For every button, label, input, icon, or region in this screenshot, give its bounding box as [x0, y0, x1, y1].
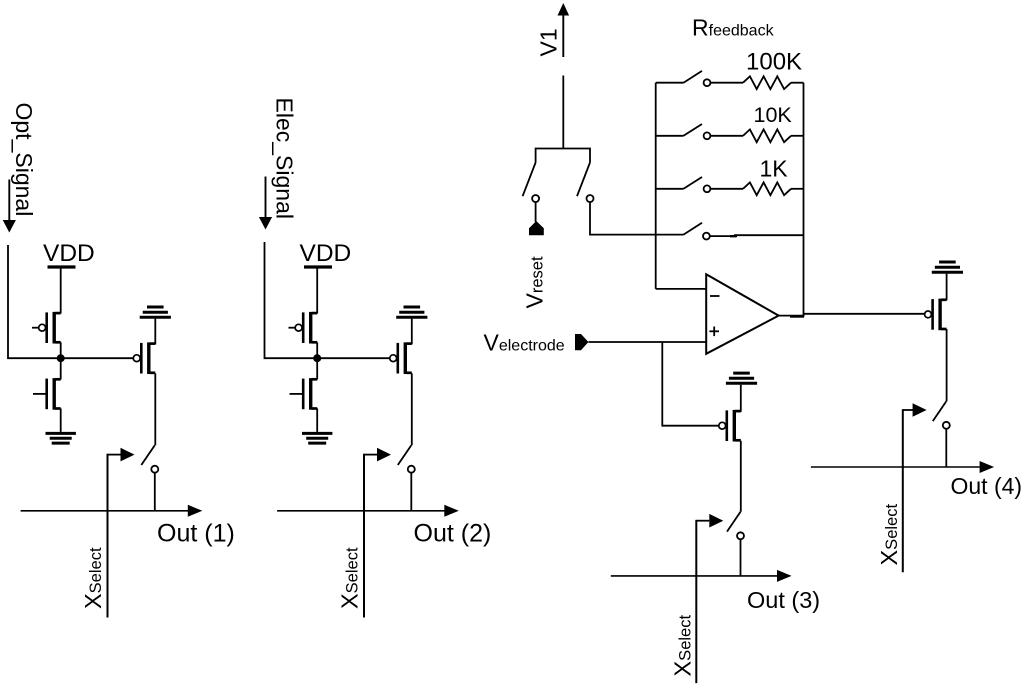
wire Velectrode to non-inverting input	[588, 341, 706, 343]
wire NMOS to ground 1	[60, 408, 62, 432]
VDD label 1	[43, 240, 95, 267]
row select switch 1	[141, 445, 158, 473]
label 10K	[754, 103, 793, 127]
svg-text:Velectrode: Velectrode	[484, 329, 565, 355]
wire contact to Vreset tag	[535, 202, 537, 222]
reset switch right blade	[577, 163, 590, 197]
wire switch4 to out line	[945, 429, 947, 467]
svg-text:Vreset: Vreset	[522, 256, 548, 308]
svg-text:XSelect: XSelect	[337, 547, 363, 609]
wire op-amp output to bus	[779, 315, 805, 317]
svg-text:100K: 100K	[746, 48, 802, 75]
PMOS load transistor 1	[32, 312, 61, 344]
out bus line 4	[811, 466, 980, 468]
svg-text:Opt_Signal: Opt_Signal	[11, 103, 37, 217]
wire branch to Q3 gate	[662, 342, 719, 426]
svg-text:VDD: VDD	[300, 240, 352, 267]
label Out (3)	[747, 587, 820, 613]
svg-text:XSelect: XSelect	[669, 615, 695, 677]
out bus line 3	[611, 575, 777, 577]
svg-text:Out (3): Out (3)	[747, 587, 820, 613]
wire bus to Q4 gate	[804, 313, 926, 315]
wire node to NMOS 2	[316, 358, 318, 379]
feedback row 1 wire to resistor	[711, 82, 744, 84]
wire follower source down 2	[411, 373, 413, 445]
svg-text:Out (4): Out (4)	[951, 473, 1023, 499]
svg-text:XSelect: XSelect	[80, 547, 106, 609]
out arrowhead 2	[444, 505, 459, 517]
wire PMOS drain to node 2	[316, 342, 318, 358]
VDD label 2	[300, 240, 352, 267]
XSelect control arrow 1	[108, 448, 135, 462]
XSelect line 1	[107, 454, 109, 618]
label Velectrode	[484, 329, 565, 355]
reset switch top bar	[536, 149, 590, 163]
label XSelect 3	[669, 615, 695, 677]
wire PMOS drain to node 1	[60, 342, 62, 358]
wire overlap dash at output	[790, 315, 804, 318]
feedback row 1 left wire	[656, 82, 684, 84]
XSelect line 3	[695, 520, 697, 683]
node junction dot 1	[57, 354, 65, 362]
reset switch right contact	[587, 195, 594, 202]
label XSelect 2	[337, 547, 363, 609]
XSelect control arrow 3	[696, 514, 723, 528]
node junction dot 2	[313, 354, 321, 362]
wire Q4 source down	[946, 329, 948, 401]
wire Q3 source down	[740, 441, 742, 512]
XSelect line 4	[902, 409, 904, 572]
feedback row 1 right wire	[791, 82, 804, 84]
wire input vertical Opt_Signal	[8, 245, 61, 358]
label Elec_Signal (rotated)	[272, 98, 298, 219]
wire input vertical Elec_Signal	[265, 242, 318, 358]
wire node to follower gate 1	[61, 357, 134, 359]
wire node to NMOS 1	[60, 358, 62, 379]
svg-text:V1: V1	[535, 28, 561, 56]
supply rail symbol Q4	[932, 262, 963, 272]
wire NMOS to ground 2	[316, 408, 318, 432]
op-amp U1	[706, 274, 778, 354]
feedback row 4 wire (short)	[710, 235, 804, 236]
feedback row 3 wire to resistor	[711, 188, 744, 190]
wire VDD to PMOS 2	[316, 269, 318, 314]
label V1 (rotated)	[535, 28, 561, 56]
Velectrode terminal tag	[575, 334, 588, 350]
feedback row 2 switch	[684, 124, 711, 139]
wire bus to inverting input	[656, 288, 707, 290]
XSelect line 2	[363, 454, 365, 618]
label XSelect 1	[80, 547, 106, 609]
wire follower drain up 1	[154, 319, 156, 345]
resistor 100K	[743, 76, 791, 89]
wire switch to out line 1	[154, 473, 156, 511]
label Out (2)	[414, 520, 492, 548]
svg-text:Elec_Signal: Elec_Signal	[272, 98, 298, 219]
svg-text:Rfeedback: Rfeedback	[692, 15, 775, 41]
svg-text:Out (2): Out (2)	[414, 520, 492, 548]
follower transistor 2	[390, 342, 412, 374]
svg-text:VDD: VDD	[43, 240, 95, 267]
wire switch3 to out line	[740, 539, 742, 576]
XSelect control arrow 2	[364, 448, 391, 462]
label Vreset (rotated)	[522, 256, 548, 308]
out arrowhead 4	[980, 461, 995, 473]
out arrowhead 3	[777, 570, 792, 582]
NMOS driver transistor 2	[290, 378, 318, 410]
row select switch 3	[727, 512, 744, 540]
left feedback bus	[655, 83, 657, 289]
feedback row 2 right wire	[791, 135, 804, 137]
wire Q4 drain up	[946, 274, 948, 301]
feedback row 1 switch	[684, 71, 711, 86]
resistor 1K	[743, 182, 791, 195]
reset switch left blade	[523, 163, 536, 197]
wire follower source down 1	[154, 373, 156, 445]
PMOS load transistor 2	[289, 312, 318, 344]
wire switch to out line 2	[410, 473, 412, 511]
wire VDD to PMOS 1	[60, 269, 62, 314]
supply rail symbol 1	[140, 307, 171, 317]
feedback row 3 left wire	[656, 188, 684, 190]
label Out (4)	[951, 473, 1023, 499]
supply rail symbol 2	[396, 307, 427, 317]
reset switch left contact	[532, 195, 539, 202]
VDD rail bar 2	[304, 265, 332, 268]
row select switch 2	[398, 445, 415, 473]
svg-text:1K: 1K	[760, 156, 789, 182]
supply rail symbol Q3	[726, 373, 757, 383]
ground symbol 2	[302, 433, 332, 443]
XSelect control arrow 4	[903, 403, 927, 417]
label Opt_Signal (rotated)	[11, 103, 37, 217]
out bus line 1	[21, 510, 188, 512]
NMOS driver transistor 1	[33, 378, 61, 410]
svg-text:Out (1): Out (1)	[157, 520, 235, 548]
follower transistor 1	[133, 342, 155, 374]
out bus line 2	[277, 510, 444, 512]
input arrow Opt_Signal	[3, 180, 16, 233]
wire Q3 drain up	[740, 385, 742, 412]
resistor 10K	[743, 129, 791, 142]
feedback row 4 switch	[684, 223, 710, 240]
svg-text:10K: 10K	[754, 103, 793, 127]
label XSelect 4	[876, 504, 902, 566]
row select switch 4	[933, 401, 950, 429]
right feedback bus	[803, 83, 805, 316]
V1 arrow	[558, 3, 570, 57]
out arrowhead 1	[188, 505, 203, 517]
VDD rail bar 1	[48, 265, 76, 268]
input arrow Elec_Signal	[259, 177, 272, 230]
wire node to follower gate 2	[317, 357, 390, 359]
label 1K	[760, 156, 789, 182]
Q4 transistor	[925, 299, 947, 331]
label Rfeedback	[692, 15, 775, 41]
Q3 transistor	[719, 410, 741, 442]
svg-text:XSelect: XSelect	[876, 504, 902, 566]
wire right contact to row4	[590, 202, 684, 234]
feedback row 3 switch	[684, 177, 711, 192]
label Out (1)	[157, 520, 235, 548]
feedback row 2 wire to resistor	[711, 135, 744, 137]
wire follower drain up 2	[411, 319, 413, 345]
ground symbol 1	[46, 433, 76, 443]
Vreset terminal tag	[529, 221, 544, 235]
feedback row 3 right wire	[791, 188, 804, 190]
wire V1 down	[562, 76, 564, 149]
label 100K	[746, 48, 802, 75]
feedback row 2 left wire	[656, 135, 684, 137]
